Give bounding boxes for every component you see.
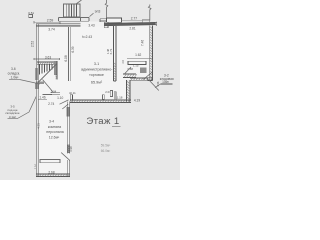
svg-text:3.43: 3.43	[88, 24, 94, 28]
svg-text:2.81: 2.81	[129, 26, 135, 30]
svg-text:h=2.43: h=2.43	[82, 35, 92, 39]
svg-text:4.19: 4.19	[134, 99, 140, 103]
svg-text:3-4: 3-4	[49, 120, 54, 124]
svg-text:1.10: 1.10	[57, 96, 63, 100]
svg-text:эп3: эп3	[95, 10, 101, 14]
svg-text:7.46: 7.46	[141, 40, 145, 46]
svg-text:3.1м²: 3.1м²	[9, 115, 16, 119]
svg-text:2.52: 2.52	[31, 41, 35, 47]
svg-text:66.0м²: 66.0м²	[101, 149, 110, 153]
svg-text:3.74: 3.74	[48, 27, 55, 31]
svg-text:2.59: 2.59	[47, 18, 54, 22]
svg-text:65.9м²: 65.9м²	[91, 81, 103, 85]
svg-text:1.15: 1.15	[133, 64, 139, 68]
svg-text:0.98: 0.98	[157, 81, 160, 86]
svg-text:12.6м²: 12.6м²	[49, 136, 60, 140]
svg-text:1.46: 1.46	[39, 95, 45, 99]
svg-text:1.0м²: 1.0м²	[11, 76, 19, 80]
svg-text:6.39: 6.39	[71, 46, 75, 52]
svg-text:3.63: 3.63	[45, 56, 51, 60]
svg-text:2.74: 2.74	[48, 102, 54, 106]
svg-text:1.52: 1.52	[55, 74, 59, 80]
svg-text:административно-: административно-	[81, 68, 113, 72]
svg-text:10м²: 10м²	[162, 80, 169, 84]
svg-text:торговое: торговое	[89, 73, 104, 77]
svg-text:3-1: 3-1	[94, 62, 99, 66]
svg-text:1.62: 1.62	[135, 53, 141, 57]
svg-text:1.10: 1.10	[34, 163, 38, 169]
svg-text:персонала: персонала	[46, 130, 63, 134]
svg-text:4.55: 4.55	[37, 123, 41, 129]
svg-text:0.98: 0.98	[69, 146, 73, 152]
svg-text:6.08: 6.08	[64, 55, 68, 61]
svg-text:1.48: 1.48	[106, 48, 110, 54]
svg-text:2.77: 2.77	[131, 16, 137, 20]
svg-text:1.18: 1.18	[117, 96, 123, 100]
svg-text:Этаж 1: Этаж 1	[86, 116, 119, 127]
svg-text:2.68: 2.68	[48, 170, 54, 174]
svg-text:комната: комната	[48, 125, 61, 129]
svg-text:59.5м²: 59.5м²	[101, 144, 110, 148]
svg-text:п0.11: п0.11	[69, 91, 76, 95]
